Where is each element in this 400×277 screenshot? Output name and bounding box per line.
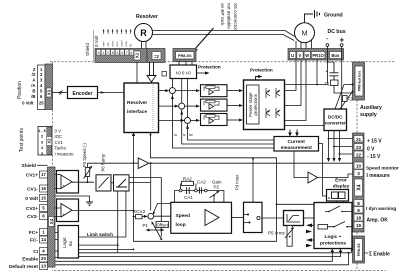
svg-text:X2: X2 [47,138,52,144]
svg-text:8: 8 [357,201,360,206]
svg-text:Logic: Logic [62,236,67,248]
gate driver V phase [185,99,243,111]
svg-text:7: 7 [126,51,128,55]
relay contact K1 [325,206,352,212]
wire current measurement to error display [319,144,327,197]
svg-text:CV1+: CV1+ [26,173,38,179]
arrow note to PR8-X6 [195,28,214,50]
svg-text:Protection: Protection [198,65,221,70]
svg-text:25: 25 [39,101,44,106]
ground [305,14,314,22]
svg-text:Enable: Enable [22,257,38,263]
svg-text:Current: Current [288,139,306,145]
svg-text:interface: interface [127,109,147,115]
gate driver W phase [191,114,244,126]
svg-text:U: U [291,53,294,58]
wire resolver to motor [152,31,294,41]
enclosure dashed border bottom [54,270,386,272]
svg-text:not available: not available [227,3,232,29]
svg-text:0 V: 0 V [55,129,62,134]
DC/DC converter [324,109,347,131]
svg-text:W: W [305,53,309,58]
svg-text:X4: X4 [356,184,362,190]
0 volt ground [55,196,90,202]
svg-text:cos+: cos+ [120,40,124,47]
svg-text:DC bus: DC bus [328,29,346,35]
wire X3 to encoder [53,92,68,94]
svg-text:Iu: Iu [174,133,177,137]
svg-text:14: 14 [41,237,46,242]
svg-text:16: 16 [41,186,46,191]
op-amp CV2 input amplifier [57,199,79,222]
bottom bus lines [56,250,352,265]
X1 pin number row [97,50,134,56]
svg-text:2: 2 [107,51,109,55]
svg-text:Auxiliary: Auxiliary [360,105,382,111]
svg-text:+ 15 V: + 15 V [367,139,382,145]
svg-text:Iv: Iv [183,133,186,137]
current measurement box [274,137,319,152]
U V W wires down to power stage [285,60,307,121]
svg-text:cos-: cos- [124,41,128,47]
connector PR8-X6 [173,49,196,62]
arrows into current measurement from power stage [290,130,297,133]
svg-text:/A: /A [31,83,35,88]
svg-text:0 Volt: 0 Volt [94,35,99,47]
svg-text:4: 4 [121,51,123,55]
relay coil [318,225,328,230]
svg-text:Σ Enable: Σ Enable [369,252,390,258]
bottom rail [285,92,342,126]
note X6 connector not available on BP rack [220,3,238,31]
top rail [285,84,328,86]
svg-text:Test points: Test points [19,128,25,152]
svg-text:measurement: measurement [281,145,313,151]
svg-text:9: 9 [357,208,360,213]
arrows left of logic box [306,224,312,228]
svg-text:B: B [32,88,35,93]
svg-text:P3 Speed (-): P3 Speed (-) [82,143,87,167]
RA2 CA2 CA1 network [175,191,224,203]
svg-text:+: + [63,212,66,217]
svg-text:9: 9 [98,51,100,55]
svg-text:0 Volt: 0 Volt [22,101,34,106]
logic + protections box [314,203,352,249]
X1 pin signal labels [102,40,133,47]
svg-text:/B: /B [31,94,35,99]
svg-text:PR1O: PR1O [312,53,324,58]
arrows into resolver interface top [150,62,154,76]
DC/DC outputs [329,131,340,159]
svg-text:P1: P1 [143,223,149,228]
feedback from speed loop [153,203,171,213]
svg-text:Shield: Shield [85,43,90,56]
svg-text:F1: F1 [325,82,331,87]
svg-text:Shield: Shield [22,163,36,169]
svg-text:P5 I rms: P5 I rms [268,231,286,236]
svg-text:FC-: FC- [30,238,38,244]
svg-text:Logic +: Logic + [325,234,342,240]
svg-text:ref+: ref+ [102,41,106,47]
current sensors box [170,65,197,79]
op-amp CV1 input amplifier [57,171,79,194]
svg-text:6: 6 [131,51,133,55]
connector strip U V W PR1O Bus [288,49,344,61]
PR8-aux bus connector [353,62,365,100]
relay contact K2 [328,222,353,227]
svg-text:19: 19 [356,223,362,228]
svg-text:CI: CI [33,249,38,255]
limiter box [284,211,304,226]
svg-text:IOC: IOC [55,134,63,139]
svg-text:P2: P2 [214,185,220,190]
power stage box [244,80,285,130]
svg-text:17: 17 [41,172,46,177]
wire resolver down to X1 [142,41,147,49]
svg-text:0 Volt: 0 Volt [25,196,38,202]
X1 label [134,51,141,60]
svg-text:display: display [333,184,350,190]
svg-text:protections: protections [253,93,258,115]
svg-text:RCV2: RCV2 [133,209,146,215]
node tacho junction [133,162,135,164]
resolver interface [124,83,159,133]
svg-text:F2: F2 [348,97,354,102]
right side labels [367,139,382,161]
svg-text:PR8-X5: PR8-X5 [357,244,361,257]
svg-text:CV2+: CV2+ [26,206,38,212]
svg-text:converter: converter [325,121,346,126]
PR1O wire [316,60,318,85]
svg-text:FC+: FC+ [29,230,38,236]
svg-text:20: 20 [41,256,46,261]
I measure buffer [294,151,308,178]
svg-text:/Z: /Z [32,72,36,77]
svg-text:sin+: sin+ [111,41,115,47]
switch box outputs [129,178,161,237]
svg-text:on BP rack: on BP rack [220,3,225,26]
wire encoder to resolver interface [98,92,125,94]
speed loop box [171,202,232,233]
connector PR8-X5 [353,236,365,263]
svg-text:18: 18 [356,215,362,220]
current feedback wires [172,79,274,149]
DC bus wires down [327,46,341,91]
svg-text:loop: loop [176,222,186,228]
motor wires down [296,40,312,49]
svg-text:Speed: Speed [176,213,190,219]
svg-text:+: + [63,184,66,189]
svg-text:Bus: Bus [332,53,341,58]
connector X4 left strip [48,167,56,267]
svg-text:1: 1 [102,51,104,55]
svg-text:sin-: sin- [115,42,119,47]
svg-text:13: 13 [41,264,46,269]
svg-text:22: 22 [356,152,362,157]
svg-text:Error: Error [335,178,347,184]
svg-text:Z: Z [33,67,36,72]
svg-text:6x: 6x [68,240,73,246]
svg-text:10: 10 [356,163,362,168]
svg-text:Amp. OK: Amp. OK [367,218,389,224]
svg-text:I measure: I measure [55,151,75,156]
connector X1 strip [95,49,147,63]
connector X2 test points [38,127,52,156]
summing junctions current loops [159,90,167,92]
X4 label box [355,179,363,196]
svg-text:Iw: Iw [189,133,193,137]
svg-text:Tacho: Tacho [55,146,67,151]
svg-text:ref-: ref- [106,42,110,47]
svg-text:I measure: I measure [367,173,391,179]
tacho line with P3 [88,162,139,164]
svg-text:Resolver: Resolver [136,14,158,20]
resolver R [135,24,153,42]
svg-text:X4: X4 [49,218,54,224]
gate driver U phase [175,85,243,97]
CA1 capacitor [187,187,190,194]
svg-text:+: + [326,69,329,75]
encoder [68,87,98,99]
svg-text:23: 23 [356,145,362,150]
fuse F1 [331,80,339,86]
enclosure right border segments [356,100,358,271]
svg-text:R: R [140,28,147,38]
svg-text:Protection: Protection [250,68,273,73]
svg-text:X6 connector: X6 connector [233,3,238,31]
connector X3 [38,65,46,110]
svg-text:=2: =2 [154,54,159,59]
frame branch to logic [277,203,315,205]
enclosure left border segments [51,62,53,271]
svg-text:Offset: Offset [157,222,169,227]
svg-text:0 V: 0 V [367,147,375,153]
svg-text:A: A [32,78,35,83]
svg-text:+: + [340,36,345,45]
svg-text:DC/DC: DC/DC [328,115,343,120]
svg-text:CV1: CV1 [55,140,64,145]
svg-text:M: M [302,31,308,38]
connector X2 strip (top) [147,49,165,63]
left pin labels [9,173,39,271]
svg-text:Default reset: Default reset [9,264,38,270]
svg-text:3: 3 [357,171,360,176]
svg-text:supply: supply [360,112,377,118]
F2 fuse [340,92,353,110]
svg-text:X1: X1 [135,52,140,58]
svg-text:⊧0 0 ⊧0: ⊧0 0 ⊧0 [176,71,191,76]
svg-text:protections: protections [320,241,346,247]
svg-text:21: 21 [356,137,362,142]
X4 label left [49,217,55,227]
svg-text:CA1: CA1 [184,195,193,200]
current loop box [244,202,263,232]
svg-text:Position: Position [17,81,23,99]
enclosure dashed border top [50,61,396,63]
ramp switch box [114,175,130,191]
svg-text:CA2: CA2 [197,180,206,185]
sensor wires from PR8-X6 [179,62,192,66]
CV2 wire to frame [72,209,134,211]
transistors IGBT bridge [266,88,280,118]
svg-text:Resolver: Resolver [127,100,147,106]
svg-text:Ground: Ground [324,13,343,19]
svg-text:P6 Ramp: P6 Ramp [101,153,106,171]
svg-text:Speed monitor: Speed monitor [366,166,399,171]
svg-text:V: V [299,53,302,58]
svg-text:8: 8 [112,51,114,55]
svg-text:15: 15 [41,196,46,201]
svg-text:Limit switch: Limit switch [87,232,113,237]
svg-text:Pd Imax: Pd Imax [235,174,240,190]
svg-text:CV1-: CV1- [27,187,38,193]
svg-text:PR8-aux bus: PR8-aux bus [357,71,361,92]
svg-text:- 15 V: - 15 V [367,154,381,160]
svg-text:RA2: RA2 [183,177,192,182]
motor M [295,23,315,43]
svg-text:1 - 6: 1 - 6 [38,128,47,133]
svg-text:I dyn warning: I dyn warning [366,206,396,211]
svg-text:Encoder: Encoder [72,91,92,97]
svg-text:PR8-X6: PR8-X6 [178,53,192,58]
svg-text:X3: X3 [46,89,51,95]
speed monitor buffer [138,158,149,169]
connector X4 right strip [353,133,365,232]
svg-text:CV2-: CV2- [27,214,38,220]
logic box left [58,226,79,259]
svg-text:3: 3 [116,51,118,55]
svg-text:th.: th. [129,43,133,47]
